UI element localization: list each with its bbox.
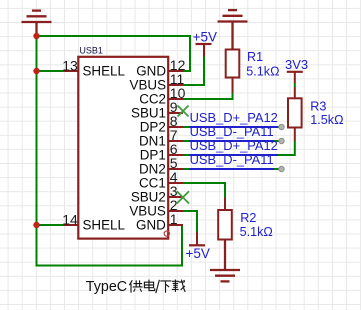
net label USB_D+_PA12 (pin6) bbox=[190, 138, 278, 155]
svg-text:USB_D-_PA11: USB_D-_PA11 bbox=[190, 124, 274, 139]
svg-text:VBUS: VBUS bbox=[130, 77, 167, 92]
svg-text:USB_D+_PA12: USB_D+_PA12 bbox=[190, 110, 278, 125]
svg-text:VBUS: VBUS bbox=[129, 203, 166, 218]
svg-text:USB_D-_PA11: USB_D-_PA11 bbox=[190, 152, 274, 167]
wire pin13 branch bbox=[37, 70, 65, 72]
svg-text:DP2: DP2 bbox=[140, 119, 166, 134]
wire pin4 to R2 bbox=[183, 183, 225, 198]
svg-text:SHELL: SHELL bbox=[83, 63, 125, 78]
wire 3V3 to R3 (short) bbox=[294, 83, 296, 87]
right pin names bbox=[129, 63, 166, 232]
wire top: pin12 to node A bbox=[37, 36, 191, 71]
ground GND3 (bottom earth below R2) bbox=[210, 240, 240, 282]
pin1 decoration ring bbox=[164, 231, 169, 236]
svg-text:1: 1 bbox=[170, 211, 178, 227]
svg-text:13: 13 bbox=[62, 57, 78, 73]
net label USB_D-_PA11 (pin5) bbox=[190, 152, 274, 169]
svg-text:SHELL: SHELL bbox=[83, 217, 125, 232]
svg-text:1.5kΩ: 1.5kΩ bbox=[310, 113, 343, 127]
svg-text:CC1: CC1 bbox=[139, 175, 166, 190]
pin 13 stub bbox=[64, 70, 78, 72]
power flag +5V (bottom, inverted) bbox=[186, 232, 210, 261]
net label USB_D+_PA12 (pin8) bbox=[190, 110, 278, 127]
slash bbox=[156, 280, 160, 293]
svg-text:SBU1: SBU1 bbox=[131, 105, 166, 120]
ground GND1 (top left earth) bbox=[22, 11, 52, 36]
hanzi XIA (down) bbox=[160, 281, 171, 293]
pin end dot (pin8 net) bbox=[279, 124, 284, 129]
wire pin2 to +5V (bottom) bbox=[183, 211, 197, 232]
svg-text:5.1kΩ: 5.1kΩ bbox=[240, 225, 273, 239]
right pin stubs 12..1 bbox=[168, 71, 184, 225]
svg-text:USB_D+_PA12: USB_D+_PA12 bbox=[190, 138, 278, 153]
pin end dot (pin7 net) bbox=[279, 138, 284, 143]
junction node C (pin14) bbox=[33, 222, 39, 228]
svg-text:DN1: DN1 bbox=[139, 133, 166, 148]
svg-text:R1: R1 bbox=[247, 50, 263, 64]
wire left vertical bus + bottom run to pin1 bbox=[37, 36, 183, 266]
svg-text:GND: GND bbox=[136, 217, 166, 232]
wire net row pin5 bbox=[183, 168, 282, 170]
wire net row pin8 bbox=[183, 126, 282, 128]
svg-text:USB1: USB1 bbox=[79, 46, 103, 56]
hanzi GONG (supply) bbox=[129, 280, 142, 292]
svg-text:+5V: +5V bbox=[193, 30, 217, 45]
wire pin14 branch bbox=[37, 224, 65, 226]
svg-text:SBU2: SBU2 bbox=[131, 189, 166, 204]
wire net row pin7 bbox=[183, 140, 282, 142]
svg-text:CC2: CC2 bbox=[139, 91, 166, 106]
svg-text:3V3: 3V3 bbox=[285, 57, 308, 72]
wire pin11 to +5V bbox=[183, 57, 204, 86]
pin 14 stub bbox=[64, 224, 78, 226]
resistor R3 bbox=[288, 87, 344, 141]
svg-text:DN2: DN2 bbox=[139, 161, 166, 176]
svg-text:TypeC: TypeC bbox=[86, 279, 127, 295]
svg-text:DP1: DP1 bbox=[140, 147, 166, 162]
wire net row pin6 to R3 bbox=[183, 141, 295, 155]
svg-text:+5V: +5V bbox=[186, 246, 210, 261]
title text TypeC supply/download bbox=[86, 279, 185, 295]
hanzi ZAI (load) bbox=[172, 280, 185, 293]
no-connect X pin3 bbox=[177, 191, 189, 203]
component U1 body (USB1) bbox=[78, 57, 168, 239]
junction node B (pin13) bbox=[33, 68, 39, 74]
ground GND2 (top middle earth) bbox=[218, 10, 248, 49]
junction node A bbox=[33, 33, 39, 39]
net label USB_D-_PA11 (pin7) bbox=[190, 124, 274, 141]
pin end dot (pin5 net) bbox=[279, 166, 284, 171]
wire pin10 to R1 bbox=[183, 93, 233, 99]
right pin numbers bbox=[170, 57, 186, 227]
resistor R1 bbox=[226, 22, 280, 94]
svg-text:5.1kΩ: 5.1kΩ bbox=[246, 64, 279, 78]
no-connect X pin9 bbox=[178, 106, 189, 117]
hanzi DIAN (electric) bbox=[144, 280, 154, 291]
svg-text:R3: R3 bbox=[310, 99, 326, 113]
power flag +5V (top) bbox=[193, 30, 217, 57]
svg-text:14: 14 bbox=[62, 211, 78, 227]
power flag 3V3 bbox=[285, 57, 308, 83]
svg-text:R2: R2 bbox=[240, 211, 256, 225]
resistor R2 bbox=[218, 198, 273, 251]
svg-text:GND: GND bbox=[136, 63, 166, 78]
